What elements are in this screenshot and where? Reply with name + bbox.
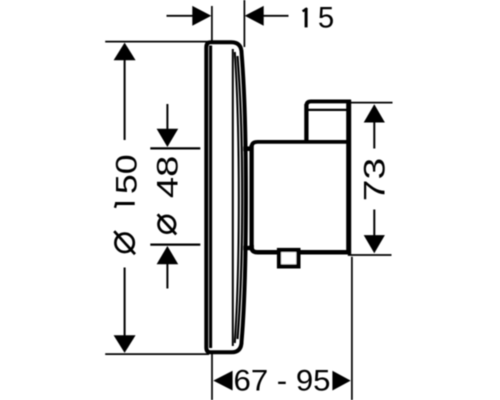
dim 15: right arrow [245, 6, 264, 26]
plate front face line 2 [235, 52, 239, 343]
valve body top edge [252, 142, 351, 152]
dim 150: line upper segment [124, 60, 126, 141]
dim 73: bottom arrow (down) [364, 235, 385, 253]
svg-text:5: 5 [318, 2, 334, 35]
dim 73: top extension line [351, 102, 393, 104]
plate inner rim line [209, 46, 212, 349]
plate front face line 3 [238, 56, 243, 339]
valve body right edge [346, 100, 351, 254]
dim 150: bottom arrow [114, 335, 136, 353]
plate front face line 1 [232, 49, 234, 346]
svg-text:67 - 95: 67 - 95 [234, 364, 331, 397]
dim 73: top arrow (up) [364, 104, 385, 122]
dim 150: bottom extension line [105, 353, 209, 355]
handle knob seam line [308, 109, 347, 111]
dim 15: right extension line [243, 0, 245, 47]
dim 48: bottom leader [166, 264, 168, 289]
dim 15: left arrow [192, 6, 211, 26]
dim 67-95: right arrow [332, 371, 350, 391]
dim 150: top arrow [114, 43, 136, 61]
dim 73: line upper segment [373, 122, 375, 149]
dim 150: line lower segment [124, 268, 126, 337]
neck bottom edge [243, 246, 251, 250]
handle knob top edge [306, 101, 351, 106]
valve body bottom edge [252, 245, 351, 252]
dim 48: bottom arrow (up) [157, 246, 179, 264]
dim 73: bottom extension line [348, 254, 392, 256]
dim 150: top extension line [105, 41, 209, 43]
dim 15: label digit 1 [305, 8, 308, 27]
dim 15: right leader [263, 15, 289, 17]
handle knob left edge [304, 104, 308, 142]
dim 67-95: left arrow [213, 371, 232, 391]
dim 48: bottom tick [150, 244, 200, 246]
valve body left edge [249, 145, 253, 248]
dim 48: label diameter symbol [158, 214, 177, 234]
dim 73: line lower segment [373, 210, 375, 237]
dim 150: label digit 1 [115, 202, 135, 205]
svg-text:48: 48 [151, 156, 184, 198]
dim 15: left leader [167, 15, 194, 17]
dim 15: left extension line [211, 6, 213, 41]
dim 67-95: left extension line [211, 353, 213, 400]
dim 150: label diameter symbol [114, 231, 135, 254]
dim 48: top leader [166, 104, 168, 130]
dim 67-95: right extension line [351, 257, 353, 400]
dim 48: top arrow (down) [157, 129, 179, 147]
bottom connector tab [279, 250, 298, 266]
svg-text:73: 73 [359, 158, 391, 201]
dim 48: top tick [150, 147, 200, 149]
escutcheon plate outer contour [206, 42, 246, 352]
neck top edge [243, 146, 251, 151]
svg-text:50: 50 [109, 154, 142, 194]
